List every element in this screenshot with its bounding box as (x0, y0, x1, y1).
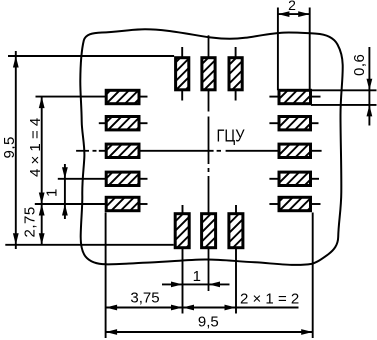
svg-text:9,5: 9,5 (1, 136, 18, 158)
svg-text:2,75: 2,75 (22, 206, 39, 237)
svg-text:0,6: 0,6 (351, 54, 368, 76)
svg-text:9,5: 9,5 (198, 314, 219, 331)
svg-text:4 × 1 = 4: 4 × 1 = 4 (27, 118, 44, 177)
svg-text:ГЦУ: ГЦУ (217, 126, 246, 146)
svg-text:2 × 1 = 2: 2 × 1 = 2 (240, 291, 299, 308)
svg-text:1: 1 (193, 268, 201, 285)
svg-text:2: 2 (288, 0, 296, 13)
svg-text:3,75: 3,75 (130, 289, 159, 306)
svg-text:1: 1 (44, 189, 61, 197)
